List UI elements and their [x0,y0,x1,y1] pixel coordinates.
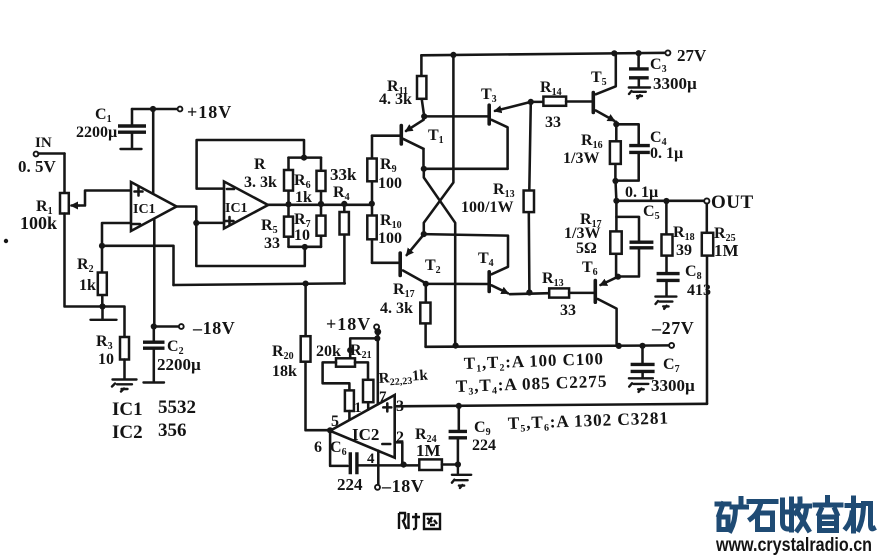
op-amp IC1b [224,182,268,229]
junction X lower left [421,231,427,237]
svg-text:33k: 33k [330,165,357,184]
wire to R3 [103,307,125,338]
resistor R2 [98,246,107,307]
junction T3 emitter [528,99,534,105]
svg-text:OUT: OUT [711,192,754,213]
wire V+ rail through IC1a [153,109,154,327]
svg-text:1M: 1M [714,241,739,260]
wire T1 base [372,134,400,137]
svg-text:33: 33 [264,235,280,252]
wire pin 2 [395,442,403,463]
wire IC1a output to IC1b [177,207,225,223]
resistor R3 [120,337,129,360]
junction IC1a output [193,220,199,226]
wire T2 collector to T4 base [425,283,489,285]
wire +18V rail top [132,108,178,111]
resistor R13b 33 [549,288,594,297]
svg-text:1M: 1M [416,441,441,460]
transistor T2 [400,234,424,282]
svg-text:39: 39 [676,242,692,259]
capacitor C6 [330,431,419,474]
resistor R17 4.3k [420,284,430,347]
wire feedback node A to long line [102,246,174,285]
wire pin 4 [375,451,380,490]
junction T1 collector [421,166,427,172]
resistor R20 [301,284,330,431]
svg-text:+18V: +18V [187,102,232,122]
capacitor C2 [143,327,165,383]
junction R2 bottom [99,303,105,309]
svg-text:10: 10 [294,227,310,244]
upper coupling rail [424,168,508,171]
caption fu tu glyphs [399,513,440,529]
junction 20k top [347,347,353,353]
terminal +18V [178,107,183,112]
lower coupling rail [424,234,508,236]
ground below R2 [91,307,117,320]
network bottom rail [289,246,322,249]
junction OUT node [613,198,619,204]
svg-text:356: 356 [158,420,187,441]
svg-text:6: 6 [314,439,322,456]
svg-text:IC1: IC1 [133,202,156,217]
junction IC2 apex [327,427,333,433]
svg-text:4: 4 [367,451,375,467]
transistor T3 [489,102,531,169]
svg-text:IC2: IC2 [352,425,379,444]
resistor R22 [345,390,354,419]
svg-text:IC1: IC1 [112,399,143,420]
transistor T4 [489,236,508,294]
junction C9 top [456,403,462,409]
resistor R25 [702,204,713,404]
svg-text:1/3W: 1/3W [563,150,599,167]
svg-text:1: 1 [354,400,362,416]
junction rail C3 [636,50,642,56]
watermark kuang shi shou yin ji [717,498,874,532]
svg-text:100: 100 [378,175,402,192]
svg-text:224: 224 [337,475,363,494]
resistor R13 100/1W [524,102,534,292]
resistor R9 [367,136,376,204]
junction T1 emitter R11 [421,113,427,119]
network top rail [289,156,322,159]
junction R13 bottom [526,289,532,295]
ground below R3 [112,360,137,392]
resistor 20k [336,358,355,366]
wire to OUT node [614,181,617,201]
terminal -18V [154,324,184,329]
terminal 27V [665,50,670,55]
capacitor C7 [629,346,655,392]
svg-text:0. 5V: 0. 5V [18,157,57,176]
wire IC2 output line [395,404,707,407]
wire stub into 20k [349,350,352,358]
wire output branch to divider bottom [196,223,304,266]
speck mark [4,239,8,243]
svg-text:–27V: –27V [651,318,694,338]
junction bottom rail [302,244,308,250]
svg-text:5532: 5532 [158,397,196,418]
resistor R5 [284,204,293,247]
svg-text:33: 33 [545,114,561,131]
svg-text:10: 10 [98,351,114,368]
svg-text:IC2: IC2 [112,422,143,443]
junction pin2 bottom [401,462,407,468]
junction rail x453 [450,52,456,58]
junction R6 bottom [318,201,324,207]
svg-text:2200µ: 2200µ [76,124,117,141]
junction T2 collector [423,281,429,287]
resistor R14 [531,97,593,106]
transistor T5 [593,53,616,120]
junction pin7 branch [374,335,380,341]
wire R1 bottom [65,214,103,307]
svg-text:224: 224 [472,437,496,454]
capacitor C1 [118,109,146,149]
svg-text:20k: 20k [316,343,341,360]
OUT rail [616,200,704,203]
junction R4 top [341,201,347,207]
terminal OUT [704,198,709,203]
svg-text:3300µ: 3300µ [653,74,697,93]
svg-text:100/1W: 100/1W [461,199,513,216]
top supply rail [421,53,667,56]
svg-text:5: 5 [331,413,339,430]
ground R24 [452,465,471,489]
svg-text:+18V: +18V [326,314,371,334]
junction T5 emitter [613,121,619,127]
svg-text:3. 3k: 3. 3k [244,174,277,191]
wire IN column [63,154,66,194]
wire branch to 20k [350,338,377,350]
resistor R 3.3k [284,158,293,205]
wire T2 base [372,262,399,265]
resistor R10 [367,204,376,263]
potentiometer R1 [60,193,79,214]
op-amp IC1a [131,182,177,231]
svg-text:1k: 1k [79,277,96,294]
svg-text:3300µ: 3300µ [651,376,695,395]
terminal +18V IC2 [374,324,381,335]
junction T6 emitter [615,274,621,280]
wire pin 7 [377,330,380,404]
svg-text:4. 3k: 4. 3k [379,91,412,108]
bottom supply rail [426,345,672,346]
resistor R24 [419,459,458,470]
svg-text:1k: 1k [295,189,312,206]
resistor R4 [340,204,349,284]
svg-text:www.crystalradio.cn: www.crystalradio.cn [715,535,872,556]
junction R20 top [303,281,309,287]
svg-text:100k: 100k [20,213,57,233]
feedback loop wire IC1b [197,140,304,189]
junction -18V node [151,323,157,329]
svg-text:R: R [254,156,266,173]
capacitor C4 [616,124,650,180]
junction +18V [150,106,156,112]
wire T1 emitter up [422,116,425,119]
junction rail C7 [639,343,645,349]
long feedback wire [174,283,345,285]
capacitor C5 [616,217,653,277]
junction R24 right [455,461,461,467]
junction rail T5 [611,50,617,56]
junction R16 bottom [612,178,618,184]
resistor R11 [417,55,426,116]
wire T4 emitter [510,293,549,294]
svg-text:2: 2 [396,429,404,446]
wire IC1b output [268,204,372,207]
svg-text:IC1: IC1 [225,201,248,216]
svg-text:2200µ: 2200µ [157,355,201,374]
svg-text:33: 33 [560,302,576,319]
junction R9 R10 [369,201,375,207]
junction R bottom [285,201,291,207]
svg-text:0. 1µ: 0. 1µ [650,145,683,162]
svg-text:5Ω: 5Ω [576,240,597,257]
wire T5 emitter node [615,122,618,125]
capacitor C8 [655,274,679,309]
wire 20k left to R22 [323,362,350,390]
junction rail x455 [453,343,459,349]
svg-text:IN: IN [35,135,52,151]
resistor R7 [317,204,326,247]
svg-text:27V: 27V [677,46,707,65]
resistor R17b 5ohm [610,201,621,277]
svg-text:18k: 18k [272,363,297,380]
svg-text:–18V: –18V [192,318,235,338]
resistor R6 [317,158,326,204]
wire R1 wiper to IC1a + input [79,191,130,206]
svg-text:0. 1µ: 0. 1µ [625,184,658,201]
junction node A [99,243,105,249]
svg-text:7: 7 [379,389,387,405]
resistor R23 [355,362,373,409]
junction rail T6 [616,343,622,349]
transistor T1 [401,120,423,149]
resistor R18 [662,201,673,272]
wire T3 base [424,115,488,118]
capacitor C9 [449,406,467,465]
terminal -27V [669,343,674,348]
junction R18 top [663,198,669,204]
resistor R16 [610,124,621,181]
op-amp IC2 [330,395,395,458]
wire T1 collector down [422,149,425,169]
svg-text:–18V: –18V [381,476,424,496]
transistor T6 [595,277,618,346]
cross-coupled wires [424,55,455,346]
wire IC1a minus input [102,223,131,246]
capacitor C3 [629,53,650,98]
svg-text:4. 3k: 4. 3k [380,300,413,317]
svg-text:100: 100 [378,230,402,247]
terminal IN [34,152,65,157]
junction loop top [301,155,307,161]
